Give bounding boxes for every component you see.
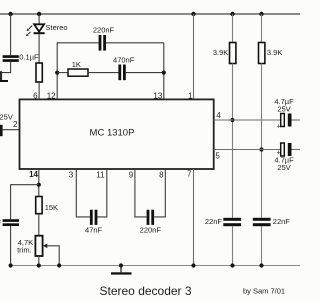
svg-text:Stereo: Stereo (46, 23, 68, 32)
node: junction rail / R 3.9K left (230, 12, 234, 16)
node: junction 3.9K left / pin 4 wire (230, 118, 234, 122)
node: junction rail / R 3.9K right (259, 12, 263, 16)
wire: 22nF left to ground bus (232, 226, 234, 265)
svg-text:4: 4 (216, 111, 221, 120)
svg-text:3: 3 (69, 171, 74, 180)
wire: 4.7uF lower to right edge (292, 149, 301, 151)
wire: pin 4 output (214, 119, 281, 121)
svg-text:13: 13 (153, 92, 162, 101)
wire: input to pin 2 (3, 129, 20, 131)
wire: pin 12 up and right to 220nF (57, 43, 98, 100)
svg-text:25V: 25V (0, 112, 13, 121)
node: junction 470nF / pin13 riser (162, 71, 166, 75)
input connector (cut off at left edge) (0, 71, 8, 82)
wire: pin 3 down (76, 169, 90, 217)
svg-text:22nF: 22nF (273, 217, 291, 226)
wire: 0.1uF to input connector (2, 62, 11, 73)
svg-text:8: 8 (159, 171, 164, 180)
resistor (LED series, unlabeled) (36, 63, 42, 82)
trimmer 4.7K (17, 236, 59, 266)
svg-text:3.9K: 3.9K (267, 48, 282, 57)
svg-text:by Sam 7/01: by Sam 7/01 (243, 287, 285, 296)
svg-text:+: + (277, 123, 281, 130)
capacitor 22nF (right) (253, 217, 291, 226)
capacitor 220nF (bottom) (140, 210, 162, 235)
svg-text:0.1µF: 0.1µF (19, 53, 39, 62)
capacitor 220nF (top) (93, 26, 115, 51)
svg-text:3.9K: 3.9K (213, 48, 228, 57)
svg-text:47nF: 47nF (85, 226, 103, 235)
node: junction rail / pin 1 (191, 12, 195, 16)
wire: cap to ground bus (10, 226, 12, 266)
capacitor 47nF (85, 210, 103, 235)
svg-text:11: 11 (96, 171, 105, 180)
node: junction cap / bus (9, 263, 13, 267)
node: junction 22nF right / bus (259, 263, 263, 267)
capacitor 22nF (left) (205, 217, 241, 226)
resistor 15K (36, 197, 58, 214)
svg-text:220nF: 220nF (140, 226, 162, 235)
wire: pin 9 down (135, 169, 147, 217)
wire: pin 7 to ground bus (193, 169, 195, 266)
wire: trimmer bottom to bus (38, 256, 40, 266)
input terminal 25V (pin 2) (0, 112, 13, 136)
wire: resistor to pin 6 (38, 82, 40, 100)
ground symbol (111, 263, 132, 274)
wire: riser down to pin 13 (163, 43, 165, 100)
wire: pin 5 output (214, 149, 281, 151)
svg-text:25V: 25V (277, 163, 290, 172)
capacitor 470nF (113, 56, 135, 81)
wire: +V supply rail (top) (0, 13, 300, 15)
wire: 220nF to pin13 riser (106, 42, 164, 44)
svg-text:12: 12 (47, 92, 56, 101)
node: junction 3.9K right / pin 5 wire (259, 147, 263, 151)
op-amp/IC U1 MC1310P (20, 99, 214, 169)
svg-text:470nF: 470nF (113, 56, 135, 65)
capacitor 4.7uF 25V (upper, electrolytic) (274, 97, 294, 130)
wire: 3.9K right down to 22nF right (261, 64, 263, 218)
svg-text:5: 5 (215, 152, 220, 161)
node: junction pin 7 / bus (191, 263, 195, 267)
wire: 470nF to junction on pin13 riser (126, 72, 164, 74)
svg-text:Stereo decoder 3: Stereo decoder 3 (100, 284, 192, 298)
wire: rail down to pin 1 (193, 14, 195, 100)
wire: 15K to trimmer (38, 214, 40, 236)
wire: 47nF up to pin 11 (97, 169, 106, 217)
capacitor 0.1uF (3, 53, 39, 62)
svg-text:25V: 25V (277, 105, 290, 114)
node: junction pin 14 / cap branch (37, 183, 41, 187)
wire: 4.7uF upper to right edge (292, 119, 301, 121)
wire: ground bus (bottom) (10, 265, 300, 267)
resistor 3.9K (right) (259, 43, 283, 64)
svg-text:MC 1310P: MC 1310P (90, 127, 135, 138)
node: junction pin12 line / 1K branch (55, 71, 59, 75)
node: junction rail / input decoupling branch (8, 12, 12, 16)
wire: rail to LED anode (38, 14, 40, 24)
wire: branch left and down to cap (11, 185, 39, 220)
wire: rail to 3.9K right (261, 14, 263, 43)
svg-text:15K: 15K (45, 203, 58, 212)
svg-text:22nF: 22nF (205, 217, 223, 226)
node: junction trimmer / bus (37, 263, 41, 267)
wire: 3.9K left down to 22nF left (232, 64, 234, 218)
svg-text:2: 2 (13, 120, 18, 129)
wire: rail down to C (0.1uF) (10, 14, 12, 55)
capacitor (label cut at edge) (0, 218, 19, 227)
svg-text:trim.: trim. (17, 245, 32, 254)
node: junction rail / LED branch (37, 12, 41, 16)
svg-text:1: 1 (188, 92, 193, 101)
svg-text:6: 6 (33, 92, 38, 101)
wire: pin 14 down (38, 169, 40, 197)
node: junction wiper / bus (57, 263, 61, 267)
wire: rail to 3.9K left (232, 14, 234, 43)
node: junction 22nF left / bus (230, 263, 234, 267)
resistor 3.9K (left) (213, 43, 236, 64)
wire: 1K to 470nF (88, 72, 118, 74)
wire: junction to 1K (57, 72, 68, 74)
LED D1 Stereo indicator (26, 23, 68, 36)
wire: LED cathode to resistor (38, 34, 40, 63)
capacitor 4.7uF 25V (lower, electrolytic) (274, 143, 294, 172)
wire: 22nF right to ground bus (261, 226, 263, 265)
svg-text:1K: 1K (72, 60, 81, 69)
svg-text:7: 7 (187, 170, 192, 179)
svg-text:220nF: 220nF (93, 26, 115, 35)
resistor 1K (68, 60, 88, 76)
svg-text:14: 14 (29, 170, 38, 179)
wire: 220nF up to pin 8 (154, 169, 165, 217)
svg-text:9: 9 (129, 171, 134, 180)
